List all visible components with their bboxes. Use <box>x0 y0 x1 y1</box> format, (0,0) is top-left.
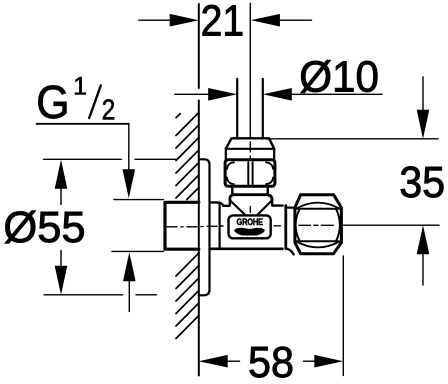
dimension 58: left arrow <box>199 355 228 368</box>
dimension O10: left tail+arrow <box>175 93 210 95</box>
nut facet lines <box>248 162 252 184</box>
knob centerline dashes <box>299 224 333 226</box>
dimension O55: top extension line <box>43 158 177 160</box>
centerline dashes in fitting <box>249 142 251 213</box>
wall hatch <box>176 113 199 339</box>
svg-text:21: 21 <box>201 0 245 45</box>
compression nut <box>225 160 275 187</box>
dimension O55: top arrow <box>55 160 68 189</box>
knob barrel arcs <box>296 209 300 241</box>
dimension 35: bottom arrow <box>422 253 424 285</box>
dimension 58: right arrow <box>314 355 343 368</box>
dimension O55: bottom extension line <box>44 294 157 296</box>
svg-text:35: 35 <box>399 158 445 206</box>
dimension 35: upper reference line <box>270 138 438 140</box>
svg-text:Ø55: Ø55 <box>3 204 85 252</box>
bonnet flange bar <box>230 195 272 200</box>
dimension 35: lower reference line <box>342 224 439 226</box>
dimension 58: right extension line <box>342 256 344 376</box>
knob facet lines <box>295 209 342 242</box>
G 1/2 leader underline <box>37 123 129 125</box>
dimension O55: bottom arrow <box>55 266 68 295</box>
dimension 21: left tail+arrow <box>139 19 172 21</box>
svg-text:2: 2 <box>102 94 116 126</box>
G 1/2 top arrow <box>128 124 130 171</box>
knob facet chamfer arcs <box>296 203 340 209</box>
knob octagon outline <box>295 195 342 254</box>
svg-text:GROHE: GROHE <box>237 216 264 227</box>
thread bottom extension line <box>112 250 164 252</box>
bonnet sides <box>232 187 267 194</box>
dimension O10: right arrow+tail <box>290 93 382 95</box>
flange escutcheon <box>199 159 210 295</box>
olive collar <box>226 138 274 149</box>
fraction slash <box>89 86 101 119</box>
dimension 21: right arrow+tail <box>278 19 312 21</box>
dimension 35: top arrow <box>422 77 424 111</box>
thread top extension line <box>114 199 164 201</box>
G 1/2 bottom arrow <box>128 281 130 312</box>
pipe centerline / extension line <box>249 4 251 138</box>
GROHE label plate <box>229 215 271 238</box>
valve centerline dash-dot thread to body <box>167 226 281 227</box>
funnel slants <box>231 201 272 215</box>
thread G1/2 body <box>165 202 199 249</box>
neck between flange and body <box>210 202 224 205</box>
svg-text:G: G <box>36 78 69 129</box>
wall face line <box>198 4 200 376</box>
nut facet corner arcs <box>227 162 234 169</box>
washer between body and knob <box>286 207 295 209</box>
body right end face <box>284 206 287 248</box>
svg-text:1: 1 <box>73 73 87 101</box>
svg-text:Ø10: Ø10 <box>299 53 379 102</box>
outlet pipe <box>237 79 263 139</box>
GROHE lips logo <box>234 228 264 236</box>
svg-text:58: 58 <box>248 338 294 384</box>
ferrule section <box>226 149 274 160</box>
valve body outline <box>223 204 283 207</box>
